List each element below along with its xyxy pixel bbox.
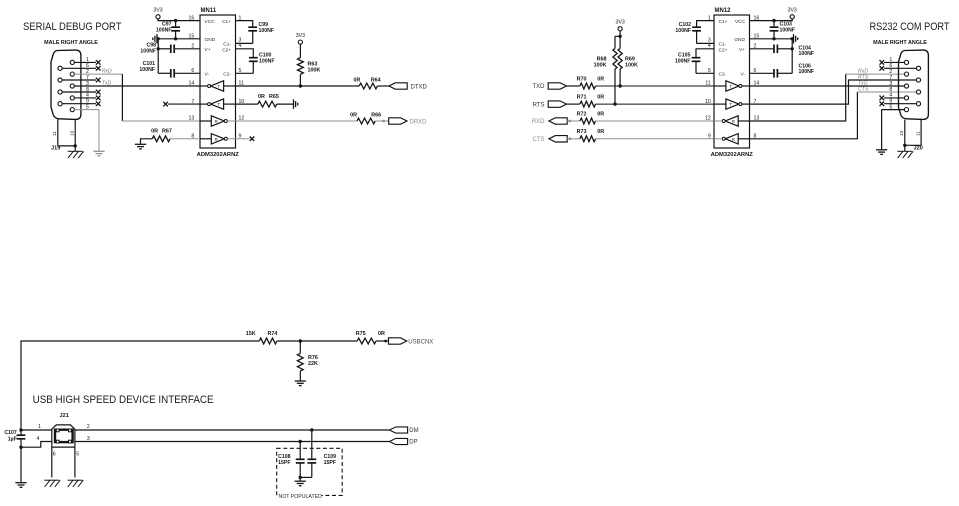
svg-text:100NF: 100NF — [799, 69, 815, 75]
wire R67 to MN11 pin8 — [170, 138, 200, 140]
junction gnd net row15 — [157, 37, 160, 40]
svg-text:22K: 22K — [308, 361, 318, 367]
wire J20 pin5 to ground — [881, 110, 883, 150]
wire C107 to ground — [20, 447, 22, 483]
wire RTS to R71 — [567, 103, 580, 105]
connector J21 USB shell — [52, 425, 75, 447]
svg-text:C1-: C1- — [223, 41, 231, 47]
J20 shell pin 11 wire — [920, 119, 922, 145]
wire MN12 pin7 to J20 pin7 (RTS) — [750, 80, 917, 104]
no-connect X on J19 pin 1 — [96, 60, 101, 65]
no-connect X on J19 pin 8 — [96, 90, 101, 95]
capacitor C98 — [158, 48, 171, 50]
svg-text:3V3: 3V3 — [153, 8, 162, 14]
J20 pin 2 — [904, 72, 908, 76]
J21 receptacle pin square — [56, 440, 59, 443]
J20 pin 5 — [904, 108, 908, 112]
svg-text:J20: J20 — [914, 146, 923, 152]
J19 pin 1 — [70, 60, 74, 64]
wire C108/C109 join — [300, 476, 312, 478]
capacitor C102 net (pin1) — [697, 21, 714, 28]
capacitor C100 net (pin4) — [236, 49, 254, 58]
svg-text:MN11: MN11 — [201, 8, 217, 14]
op chip MN11 body — [200, 15, 236, 148]
J19 pin 6 — [58, 66, 62, 70]
J21 pin 2 wire (DM) — [75, 429, 390, 431]
wire R71 to MN12 — [596, 103, 714, 105]
svg-text:V-: V- — [740, 72, 745, 78]
svg-text:100K: 100K — [594, 62, 607, 68]
junction C107 bottom — [19, 446, 22, 449]
svg-text:T: T — [218, 84, 221, 89]
port DRXD — [389, 118, 407, 124]
resistor R76 — [299, 341, 301, 353]
svg-text:1µF: 1µF — [8, 437, 17, 443]
J21 pin 5 leg — [74, 447, 76, 477]
J19 pin 5 wire — [74, 109, 99, 111]
J19 shell pin 10 wire — [74, 120, 76, 152]
svg-text:SERIAL DEBUG PORT: SERIAL DEBUG PORT — [23, 21, 122, 33]
port DP — [389, 438, 407, 444]
svg-text:NOT POPULATED: NOT POPULATED — [279, 494, 323, 500]
resistor R72 — [580, 118, 596, 124]
ground (C108/C109) — [295, 480, 306, 482]
J19 pin 9 wire — [62, 103, 96, 105]
wire R74 to R75 — [277, 340, 357, 342]
capacitor C104 — [750, 48, 775, 50]
wire MN11 row13 inner — [200, 120, 211, 122]
svg-text:10: 10 — [70, 130, 76, 136]
svg-text:1: 1 — [38, 424, 41, 430]
no-connect X on J19 pin 6 — [96, 66, 101, 71]
junction RXD tag — [568, 120, 571, 123]
J19 pin 3 wire — [74, 85, 200, 87]
svg-text:3V3: 3V3 — [615, 20, 624, 26]
svg-text:100NF: 100NF — [799, 51, 815, 57]
wire J19 pin5 to ground — [98, 110, 100, 152]
buffer T2 (MN12 pins 10-7) — [726, 99, 739, 109]
svg-text:0R: 0R — [378, 331, 385, 337]
buffer R1 (MN11 pins 13-12) — [211, 116, 224, 126]
J19 pin 8 wire — [62, 91, 96, 93]
power 3V3 (MN12) — [790, 15, 794, 19]
wire R68 to RTS row — [614, 69, 616, 104]
resistor R64 — [359, 83, 377, 89]
resistor R71 — [580, 101, 596, 107]
buffer T1 (MN11 pins 11-14) — [211, 81, 224, 91]
svg-text:R: R — [732, 137, 735, 142]
svg-text:5: 5 — [86, 104, 89, 110]
resistor R69 — [618, 49, 622, 70]
port TXD — [548, 83, 566, 89]
svg-text:V+: V+ — [205, 47, 211, 53]
capacitor C105 net (pin4) — [696, 49, 714, 58]
svg-text:CTS: CTS — [533, 137, 545, 143]
svg-text:T: T — [218, 102, 221, 107]
junction C97/pin16 — [174, 19, 177, 22]
svg-text:T: T — [729, 102, 732, 107]
capacitor C99 net (pin1) — [236, 21, 253, 28]
svg-text:100NF: 100NF — [140, 48, 156, 54]
junction C108/DP — [299, 440, 302, 443]
wire MN11 row14 inner — [200, 85, 208, 87]
no-connect X on J19 pin 4 — [96, 96, 101, 101]
svg-text:15PF: 15PF — [324, 460, 336, 466]
svg-text:C2-: C2- — [223, 72, 231, 78]
ground (J20 pin5) — [876, 149, 887, 151]
wire R73 to MN12 — [596, 138, 714, 140]
svg-text:100NF: 100NF — [259, 58, 275, 64]
buffer T2 (MN11 pins 10-7) — [211, 99, 224, 109]
svg-text:100NF: 100NF — [259, 28, 275, 34]
no-connect X on J20 pin 9 — [880, 101, 885, 106]
wire MN11 row7 inner — [200, 103, 208, 105]
wire C105 to pin5 — [696, 72, 714, 74]
J21 pin 4 wire — [21, 442, 52, 448]
svg-text:V-: V- — [205, 72, 210, 78]
svg-text:15K: 15K — [246, 331, 256, 337]
wire R65 to ground — [277, 103, 294, 105]
buffer R2 (MN12 pins 8-9) — [725, 134, 738, 144]
svg-text:C107: C107 — [4, 430, 17, 436]
junction CTS tag — [568, 137, 571, 140]
port CTS — [549, 136, 567, 142]
junction R68/RTS — [613, 102, 616, 105]
ground (J19 pin5) — [93, 150, 104, 152]
J20 pin 4 wire — [884, 97, 904, 99]
wire R72 to MN12 — [596, 120, 714, 122]
ground (R67) — [141, 139, 153, 145]
svg-text:VCC: VCC — [205, 19, 216, 25]
wire MN12 pin8 to J20 pin8 (CTS) — [750, 92, 858, 139]
svg-text:0R: 0R — [258, 94, 265, 100]
svg-text:C1+: C1+ — [222, 19, 231, 25]
no-connect X on J20 pin 6 — [880, 66, 885, 71]
svg-text:3V3: 3V3 — [788, 8, 797, 14]
junction gnd net row2 — [157, 47, 160, 50]
wire MN12 row11 inner — [714, 85, 726, 87]
J20 pin 8 — [916, 90, 920, 94]
svg-text:ADM3202ARNZ: ADM3202ARNZ — [711, 152, 754, 158]
resistor R68 — [613, 49, 617, 70]
chassis ground (J19 shell) — [68, 150, 83, 152]
wire gnd net vertical (MN12) — [791, 39, 793, 74]
J19 pin 1 wire — [74, 61, 96, 63]
wire VBUS net corner — [21, 341, 259, 430]
svg-text:3: 3 — [87, 436, 90, 442]
svg-text:3V3: 3V3 — [296, 33, 305, 39]
svg-text:4: 4 — [37, 436, 40, 442]
wire C102 to pin3 — [697, 42, 714, 44]
junction R76 — [299, 339, 302, 342]
wire R69 to TXD row — [619, 69, 621, 86]
svg-text:0R: 0R — [354, 78, 361, 84]
svg-text:12: 12 — [705, 116, 711, 122]
wire MN11 pin11 to R64 — [236, 85, 360, 87]
svg-text:100NF: 100NF — [780, 27, 796, 33]
port RXD — [549, 118, 567, 124]
wire MN12 row9 inner — [714, 138, 722, 140]
capacitor C97 — [175, 21, 177, 28]
svg-text:DRXD: DRXD — [410, 119, 428, 125]
svg-text:11: 11 — [916, 131, 922, 136]
capacitor C108 — [299, 442, 301, 460]
svg-text:100K: 100K — [625, 62, 638, 68]
wire MN12 pin14 to J20 pin3 (TxD) — [750, 85, 905, 87]
wire 3V3 to R68/R69 — [615, 31, 620, 49]
wire C100 to pin5 — [236, 72, 254, 74]
svg-text:R73: R73 — [577, 129, 587, 135]
svg-text:RS232 COM PORT: RS232 COM PORT — [870, 21, 950, 33]
svg-text:USB HIGH SPEED DEVICE INTERFAC: USB HIGH SPEED DEVICE INTERFACE — [33, 394, 214, 406]
svg-text:RXD: RXD — [532, 119, 545, 125]
buffer R1 (MN12 pins 13-12) — [725, 116, 738, 126]
no-connect X MN11 pin7 — [163, 102, 168, 107]
wire CTS to R73 — [567, 138, 580, 140]
svg-text:R: R — [732, 119, 735, 124]
junction C103/pin15 — [772, 37, 775, 40]
svg-text:R66: R66 — [371, 113, 381, 119]
J19 pin 4 — [70, 96, 74, 100]
svg-text:MALE RIGHT ANGLE: MALE RIGHT ANGLE — [44, 40, 98, 46]
svg-text:R70: R70 — [577, 76, 587, 82]
junction C108 gnd — [299, 476, 302, 479]
wire to ground (C108/C109) — [299, 477, 301, 481]
svg-text:R: R — [215, 137, 218, 142]
wire RxD vertical to MN11 pin13 — [121, 74, 123, 121]
connector J19 DB9 shell — [51, 50, 81, 119]
wire R70 to MN12 — [596, 85, 714, 87]
svg-text:14: 14 — [189, 81, 195, 87]
svg-text:TxD: TxD — [102, 81, 112, 87]
ground (R76) — [295, 380, 306, 382]
svg-text:0R: 0R — [151, 128, 158, 134]
junction R69/TXD — [618, 84, 621, 87]
junction J21 pin1 / C107 — [19, 428, 22, 431]
svg-text:USBCNX: USBCNX — [408, 339, 433, 345]
ground (C107) — [15, 482, 26, 484]
svg-text:100NF: 100NF — [675, 58, 691, 64]
capacitor C101 — [158, 72, 171, 74]
junction R63/row11 — [299, 84, 302, 87]
svg-text:11: 11 — [52, 131, 58, 136]
chassis ground (J21 pin6) — [44, 479, 59, 481]
wire MN12 row10 inner — [714, 103, 726, 105]
wire MN11 pin12 to R66 — [236, 120, 358, 122]
J20 pin 5 wire — [882, 109, 905, 111]
J19 pin 9 — [58, 102, 62, 106]
junction DRXD — [382, 120, 385, 123]
svg-text:R71: R71 — [577, 95, 587, 101]
svg-text:R74: R74 — [268, 331, 278, 337]
svg-text:R65: R65 — [269, 94, 279, 100]
J20 pin 6 — [916, 66, 920, 70]
wire MN12 row12 inner — [714, 120, 722, 122]
resistor R67 — [152, 136, 170, 142]
J21 receptacle pin square — [56, 429, 59, 432]
wire R75 to USBCNX — [376, 340, 389, 342]
J21 pin 1 wire — [21, 429, 52, 431]
power 3V3 (R63) — [298, 40, 302, 44]
no-connect X on J19 pin 9 — [96, 101, 101, 106]
wire R64 to DTXD — [377, 85, 389, 87]
resistor R75 — [357, 338, 376, 344]
svg-text:0R: 0R — [597, 76, 604, 82]
capacitor C102 — [692, 26, 701, 28]
svg-text:CTS: CTS — [858, 87, 869, 93]
J20 pin 1 — [904, 60, 908, 64]
J20 pin 1 wire — [884, 61, 904, 63]
svg-text:C1-: C1- — [719, 41, 727, 47]
power 3V3 (MN11) — [156, 15, 160, 19]
op chip MN12 body — [714, 15, 750, 148]
wire MN11 row8 inner — [200, 138, 211, 140]
wire RxD horizontal to MN11 pin13 — [122, 120, 200, 122]
resistor R70 — [580, 83, 596, 89]
svg-text:R67: R67 — [162, 128, 172, 134]
svg-text:RTS: RTS — [533, 102, 545, 108]
not populated box — [277, 448, 343, 495]
svg-text:100NF: 100NF — [675, 28, 691, 34]
junction gnd net row2 (MN12) — [791, 47, 794, 50]
svg-text:DTXD: DTXD — [411, 84, 428, 90]
port USBCNX — [389, 338, 407, 344]
buffer T1 (MN12 pins 11-14) — [726, 81, 739, 91]
svg-text:T: T — [729, 84, 732, 89]
svg-text:VCC: VCC — [735, 19, 746, 25]
no-connect X MN11 pin9 — [250, 137, 255, 142]
J19 pin 4 wire — [74, 97, 96, 99]
J19 pin 7 wire — [62, 79, 96, 81]
wire GND to MN11 pin15 — [157, 38, 200, 40]
no-connect X on J20 pin 1 — [880, 60, 885, 65]
svg-text:R72: R72 — [577, 111, 587, 117]
wire gnd net vertical — [157, 39, 159, 74]
J21 USB receptacle symbol — [55, 430, 73, 442]
svg-text:0R: 0R — [350, 113, 357, 119]
capacitor C100 — [249, 57, 258, 59]
svg-text:13: 13 — [189, 116, 195, 122]
junction C103/pin16 — [772, 19, 775, 22]
svg-text:100K: 100K — [308, 67, 321, 73]
capacitor C106 — [750, 72, 775, 74]
capacitor C99 — [248, 26, 257, 28]
port RTS — [548, 101, 566, 107]
capacitor C109 — [311, 430, 313, 459]
J19 pin 6 wire — [62, 67, 96, 69]
junction J20 shell ground — [903, 144, 906, 147]
chassis ground (J20 shell) — [897, 150, 912, 152]
J21 pin 6 leg — [51, 447, 53, 477]
svg-text:10: 10 — [705, 99, 711, 105]
J19 pin 3 — [70, 84, 74, 88]
no-connect X on J20 pin 4 — [880, 96, 885, 101]
svg-text:0R: 0R — [597, 95, 604, 101]
J20 pin 9 — [916, 102, 920, 106]
wire C99 to pin3 — [236, 42, 253, 44]
J20 shell pin 10 wire — [904, 120, 906, 152]
J20 pin 9 wire — [884, 103, 916, 105]
resistor R65 — [258, 101, 277, 107]
junction C97/pin15 — [174, 37, 177, 40]
svg-text:100NF: 100NF — [139, 67, 155, 73]
junction gnd net row15 (MN12) — [791, 37, 794, 40]
svg-text:C1+: C1+ — [719, 19, 728, 25]
svg-text:11: 11 — [705, 81, 710, 87]
svg-text:GND: GND — [205, 37, 216, 43]
svg-text:6: 6 — [53, 451, 56, 457]
port DM — [389, 427, 407, 433]
junction 3V3/R68/R69 — [618, 35, 621, 38]
ground (R65) — [293, 99, 295, 108]
wire MN12 pin13 to J20 pin2 (RxD) — [750, 74, 846, 121]
svg-text:DM: DM — [409, 428, 418, 434]
wire MN11 pin10 to R65 — [236, 103, 258, 105]
power 3V3 (R68/R69) — [618, 27, 622, 31]
svg-text:TXD: TXD — [533, 84, 546, 90]
svg-text:9: 9 — [708, 134, 711, 140]
svg-text:5: 5 — [889, 104, 892, 110]
svg-text:2: 2 — [87, 424, 90, 430]
resistor R73 — [580, 136, 596, 142]
ground (MN11 pin15) — [156, 34, 158, 43]
svg-text:R64: R64 — [371, 78, 381, 84]
chassis ground (J21 pin5) — [68, 479, 83, 481]
J21 pin 3 wire (DP) — [75, 441, 390, 443]
svg-text:C2+: C2+ — [719, 47, 728, 53]
J19 pin 7 — [58, 78, 62, 82]
svg-text:0R: 0R — [597, 111, 604, 117]
svg-text:15PF: 15PF — [278, 460, 290, 466]
J20 pin 4 — [904, 96, 908, 100]
ground (MN12 pin15) — [793, 34, 795, 43]
svg-text:R: R — [215, 119, 218, 124]
svg-text:MN12: MN12 — [715, 8, 732, 14]
J19 pin 2 wire — [74, 73, 122, 75]
connector J20 DB9 shell — [899, 50, 929, 119]
junction C109/DM — [310, 428, 313, 431]
junction J19 shell ground — [74, 144, 77, 147]
junction USBCNX tag — [384, 340, 387, 343]
resistor R74 — [259, 338, 277, 344]
port DTXD — [389, 83, 407, 89]
wire 3V3 to MN12 pin16 — [750, 19, 793, 21]
J19 shell pin 11 wire — [57, 119, 59, 146]
no-connect X on J19 pin 7 — [96, 78, 101, 83]
capacitor C103 — [773, 21, 775, 28]
svg-text:J21: J21 — [60, 413, 69, 419]
J21 receptacle pin square — [69, 440, 72, 443]
J19 pin 5 — [70, 108, 74, 112]
svg-text:J19: J19 — [51, 146, 60, 152]
wire TXD to R70 — [567, 85, 580, 87]
buffer R2 (MN11 pins 8-9) — [211, 134, 224, 144]
svg-text:5: 5 — [76, 451, 79, 457]
wire R66 to DRXD — [375, 120, 389, 122]
label NOT POPULATED — [278, 493, 322, 499]
svg-text:C2-: C2- — [719, 72, 727, 78]
resistor R66 — [357, 118, 375, 124]
J20 pin 6 wire — [884, 67, 916, 69]
capacitor C107 — [20, 430, 22, 435]
wire RXD to R72 — [567, 120, 580, 122]
svg-text:0R: 0R — [597, 129, 604, 135]
wire MN12 pin15 to ground — [750, 38, 794, 40]
svg-text:R75: R75 — [356, 331, 366, 337]
svg-text:10: 10 — [899, 130, 905, 136]
svg-text:DP: DP — [409, 440, 417, 446]
resistor R63 — [299, 44, 301, 57]
